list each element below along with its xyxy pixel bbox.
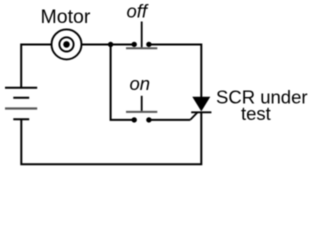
svg-text:on: on [130,73,151,94]
wire from battery positive up left side and along top to motor [21,45,51,88]
motor M [52,29,82,59]
node junction below off button (tap to on branch) [108,42,113,47]
svg-text:Motor: Motor [41,6,91,28]
label on [130,73,151,94]
on actuator stem [141,96,143,112]
on movable contact bar [126,111,157,113]
label off [127,0,149,21]
wire from off right contact to top-right corner down to SCR anode [149,45,201,98]
battery plate long lower (gray) [5,107,37,109]
wire from on right contact to SCR gate [149,119,190,121]
off left contact [132,42,137,47]
on left contact [132,117,137,122]
SCR under test [190,97,211,120]
wire from motor to off pushbutton left contact [81,44,134,46]
off movable contact bar [126,47,157,49]
off right contact [146,42,151,47]
battery plate short upper [13,97,29,99]
svg-text:test: test [241,103,271,124]
wire from SCR cathode down, along bottom, and up to battery negative [21,112,201,164]
off actuator stem [141,22,143,48]
battery [5,88,37,120]
pushbutton "on" (normally-open) [126,96,157,123]
pushbutton "off" (normally-closed) [126,22,157,49]
SCR gate lead [190,112,197,120]
svg-text:off: off [127,0,149,21]
label Motor [41,6,91,28]
SCR anode-cathode triangle [192,97,210,112]
label SCR under test [216,87,308,125]
wire from junction node down and right to on pushbutton left contact [111,45,135,120]
battery plate long top [5,87,37,89]
on right contact [146,117,151,122]
SCR cathode bar [191,111,211,113]
battery plate short bottom [13,118,29,120]
